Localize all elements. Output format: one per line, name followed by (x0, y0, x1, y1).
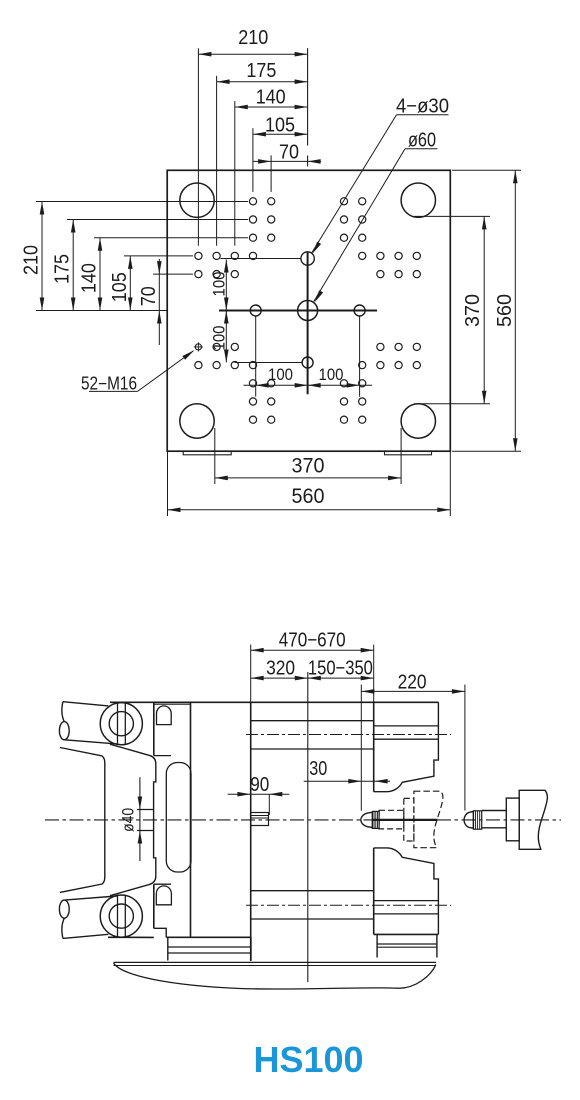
injection body retracted (519, 790, 547, 849)
dimension 220 (361, 672, 465, 694)
svg-text:105: 105 (265, 115, 295, 137)
dimension 560 bottom (168, 485, 451, 512)
bottom nut slot lines (118, 896, 126, 937)
leader diam60 (314, 130, 438, 303)
dimension 370 right (462, 216, 486, 403)
mold center extension line (307, 672, 309, 982)
dimension 210 top (198, 27, 307, 56)
hole diameter 30 right (354, 305, 365, 316)
dimension 210 left (21, 202, 45, 311)
dimension 320 (251, 658, 308, 681)
svg-text:ø60: ø60 (408, 130, 436, 152)
dimension 30 (304, 758, 390, 784)
svg-text:4−ø30: 4−ø30 (396, 96, 449, 118)
tie-bar hole bottom-left (180, 404, 214, 438)
dimension 105 left (109, 256, 133, 311)
main horizontal centerline (45, 819, 561, 821)
svg-text:52−M16: 52−M16 (81, 373, 137, 393)
extension line hole-30 right column (359, 316, 361, 397)
M16 hole grid top-left quadrant (195, 198, 275, 278)
dimension 370 bottom (215, 455, 401, 481)
platen center slot (166, 763, 191, 873)
svg-text:HS100: HS100 (253, 1039, 363, 1080)
leader 4-diam30 (312, 96, 450, 254)
svg-text:105: 105 (109, 272, 131, 302)
center block left face (250, 702, 252, 961)
barrel retracted (482, 811, 507, 828)
bottom tie bar nut outer (100, 895, 142, 937)
dimension 560 right (494, 170, 518, 451)
fixed platen lower face (bottom half) (373, 848, 375, 935)
nozzle tip retracted (464, 812, 474, 829)
dimension diam40 (119, 777, 143, 861)
toggle inner vertical (102, 756, 105, 884)
base plate top edges (114, 962, 437, 965)
machine top edge (110, 701, 438, 703)
platen keyway bottom (arch) (156, 886, 171, 905)
ejector coupling block (251, 813, 269, 826)
dimension 105 top (253, 115, 308, 137)
top nut slot lines (118, 703, 126, 744)
tie bar bushing lines bottom (246, 891, 451, 919)
tie-bar hole bottom-right (401, 404, 435, 438)
toggle bracket profile (diagonal-fillet-face) (110, 744, 156, 896)
moving platen left face lower (153, 884, 155, 928)
svg-text:100: 100 (319, 365, 344, 384)
tie bar lines through fixed platen bottom (374, 901, 439, 914)
platen outline 560x560 (167, 170, 450, 451)
platen keyway top (arch) (157, 706, 172, 725)
svg-text:150−350: 150−350 (308, 658, 373, 680)
svg-text:175: 175 (246, 60, 276, 82)
toggle inner diagonal bottom (60, 884, 102, 892)
fixed platen nozzle recess top profile (374, 702, 439, 791)
injection body phantom dashed (414, 791, 443, 848)
svg-text:100: 100 (210, 326, 229, 351)
top tie bar nut inner (109, 712, 133, 736)
dimension 470-670 (251, 629, 374, 652)
svg-text:560: 560 (292, 485, 325, 508)
barrel step phantom dashed (404, 798, 414, 841)
left support slab (168, 937, 251, 960)
svg-text:210: 210 (238, 27, 268, 49)
dimension 150-350 (308, 658, 374, 681)
bottom tie bar nut inner (109, 904, 133, 928)
horizontal centerline (36, 310, 167, 312)
extension line hole-30 left column (255, 316, 257, 397)
M16 hole grid bottom-right quadrant (340, 343, 420, 423)
hole diameter 30 top (301, 252, 314, 265)
center hole diameter 60 (298, 301, 318, 321)
svg-text:370: 370 (292, 455, 325, 478)
injection axis line (372, 819, 437, 821)
foot pad right (385, 451, 432, 455)
tie bar lines through fixed platen top (374, 726, 439, 739)
platen top edge inner line (154, 703, 191, 705)
hole diameter 30 left (250, 305, 261, 316)
top view: platen plan (21, 27, 522, 516)
svg-text:210: 210 (21, 245, 43, 275)
svg-text:90: 90 (250, 774, 269, 796)
svg-text:30: 30 (309, 758, 327, 780)
M16 hole grid bottom-left quadrant (195, 343, 275, 423)
fixed platen bottom edge (374, 933, 439, 935)
vertical centerline (307, 48, 309, 145)
barrel phantom dashed (379, 810, 404, 829)
dimension 140 left (79, 238, 103, 311)
base plate hull bottom (114, 963, 436, 989)
extension line hole-30 bottom row (235, 362, 303, 364)
extension lines top dims (198, 48, 271, 246)
bottom tie bar cylinder (59, 896, 116, 938)
tie-bar hole top-left (180, 183, 214, 217)
extension lines side top dims (251, 645, 465, 811)
svg-text:470−670: 470−670 (279, 629, 346, 651)
svg-text:370: 370 (462, 294, 484, 327)
svg-text:175: 175 (52, 254, 74, 284)
svg-text:100: 100 (268, 365, 293, 384)
top tie bar cylinder (59, 702, 116, 744)
dimension 175 top (217, 60, 308, 84)
side view: clamping unit elevation (45, 629, 561, 989)
dimension 140 top (235, 86, 308, 109)
svg-text:70: 70 (138, 286, 160, 306)
svg-text:100: 100 (210, 272, 229, 297)
moving platen right face (190, 702, 192, 937)
fixed platen nozzle recess bottom profile (374, 848, 439, 935)
center block / fixed platen shared face (373, 702, 375, 792)
dimension 100 vertical lower (210, 311, 229, 363)
M16 marked hole with center cross (52-M16 target) (194, 342, 203, 351)
machine bottom edge (108, 936, 154, 938)
svg-text:560: 560 (494, 294, 516, 327)
nozzle thread block advanced (372, 811, 379, 828)
svg-text:220: 220 (398, 672, 427, 694)
leader 52-M16 (81, 350, 194, 393)
moving platen bottom notch (154, 928, 166, 937)
toggle inner diagonal top (60, 748, 102, 756)
hole diameter 30 bottom (302, 357, 313, 368)
moving platen left face upper (153, 702, 155, 755)
nozzle thread block retracted (473, 811, 481, 829)
svg-text:70: 70 (279, 142, 299, 164)
dimension 100 vertical upper (210, 260, 229, 311)
extension lines bottom dims (168, 428, 451, 516)
diam40 hole extension lines (137, 810, 154, 831)
extension lines right dims (414, 170, 521, 451)
M16 hole grid top-right quadrant (340, 198, 420, 278)
dimension 70 top (outside arrows) (253, 142, 321, 164)
tie bar bushing lines top (246, 721, 451, 749)
dimension 90 (228, 774, 290, 815)
extension line hole-30 top row (220, 258, 301, 260)
dimension 100 100 horizontal (244, 365, 372, 388)
right support slab (377, 934, 437, 957)
platen shelf line upper (154, 755, 171, 757)
svg-text:ø40: ø40 (119, 808, 138, 832)
extension lines left dims (36, 202, 248, 275)
barrel step retracted (506, 798, 519, 841)
platen bottom edge to block (166, 936, 251, 938)
svg-text:140: 140 (256, 86, 286, 108)
top tie bar nut outer (100, 703, 142, 745)
dimension 70 left (outside arrows) (138, 259, 162, 345)
nozzle tip advanced position (361, 812, 373, 827)
tie-bar hole top-right (401, 183, 435, 217)
svg-text:140: 140 (79, 263, 101, 293)
svg-text:320: 320 (266, 658, 295, 680)
dimension 175 left (52, 220, 76, 311)
platen shelf line lower (154, 883, 171, 885)
foot pad left (183, 451, 231, 455)
